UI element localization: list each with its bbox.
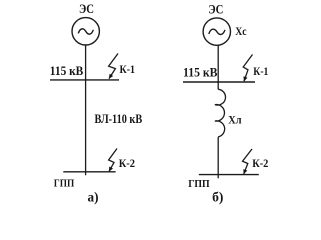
svg-text:115 кВ: 115 кВ [183, 64, 218, 79]
short-circuit bolt К-2 (right) [243, 149, 253, 174]
wire: right vertical from source to inductor top [217, 45, 219, 89]
svg-text:К-1: К-1 [120, 62, 136, 76]
short-circuit bolt К-1 (right) [243, 55, 252, 82]
svg-text:б): б) [212, 189, 223, 204]
svg-text:ГПП: ГПП [188, 178, 210, 190]
svg-text:ЭС: ЭС [79, 1, 94, 16]
generator G1: AC source circle (left) [72, 18, 99, 45]
svg-text:Хс: Хс [235, 26, 246, 38]
svg-text:ГПП: ГПП [54, 178, 75, 190]
short-circuit bolt К-1 (left) [109, 54, 118, 79]
bus: right ГПП busbar [199, 174, 259, 176]
svg-text:К-2: К-2 [119, 156, 135, 170]
wire: left vertical feeder from source to ГПП [85, 45, 87, 175]
svg-text:К-2: К-2 [252, 156, 268, 170]
bus: left ГПП busbar [63, 171, 115, 173]
svg-text:115 кВ: 115 кВ [50, 63, 84, 78]
generator G2: AC source circle (right) [203, 18, 230, 45]
svg-text:ЭС: ЭС [208, 2, 223, 17]
svg-text:а): а) [88, 189, 99, 204]
wire: right vertical from inductor to ГПП [217, 137, 219, 178]
inductor L1: line reactance coil [215, 89, 226, 137]
bus: left 115 kV busbar [50, 79, 119, 81]
svg-text:К-1: К-1 [253, 64, 268, 78]
svg-text:Хл: Хл [228, 114, 242, 126]
svg-text:ВЛ-110 кВ: ВЛ-110 кВ [95, 111, 143, 126]
short-circuit bolt К-2 (left) [109, 149, 117, 172]
bus: right 115 kV busbar [183, 81, 255, 83]
